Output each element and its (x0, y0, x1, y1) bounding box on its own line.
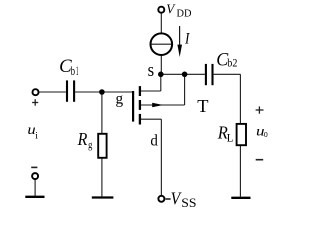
svg-text:b: b (71, 64, 75, 78)
svg-text:i: i (35, 130, 38, 141)
svg-text:o: o (264, 129, 268, 140)
svg-text:DD: DD (177, 9, 192, 20)
svg-text:SS: SS (181, 196, 196, 210)
svg-text:g: g (88, 139, 93, 151)
svg-text:R: R (77, 129, 88, 149)
svg-text:g: g (115, 91, 123, 108)
svg-text:L: L (227, 133, 234, 145)
svg-text:I: I (184, 31, 190, 48)
svg-text:b2: b2 (227, 56, 237, 69)
svg-text:s: s (148, 61, 155, 81)
svg-text:T: T (197, 96, 208, 116)
svg-text:d: d (150, 133, 157, 150)
svg-text:1: 1 (76, 64, 79, 78)
